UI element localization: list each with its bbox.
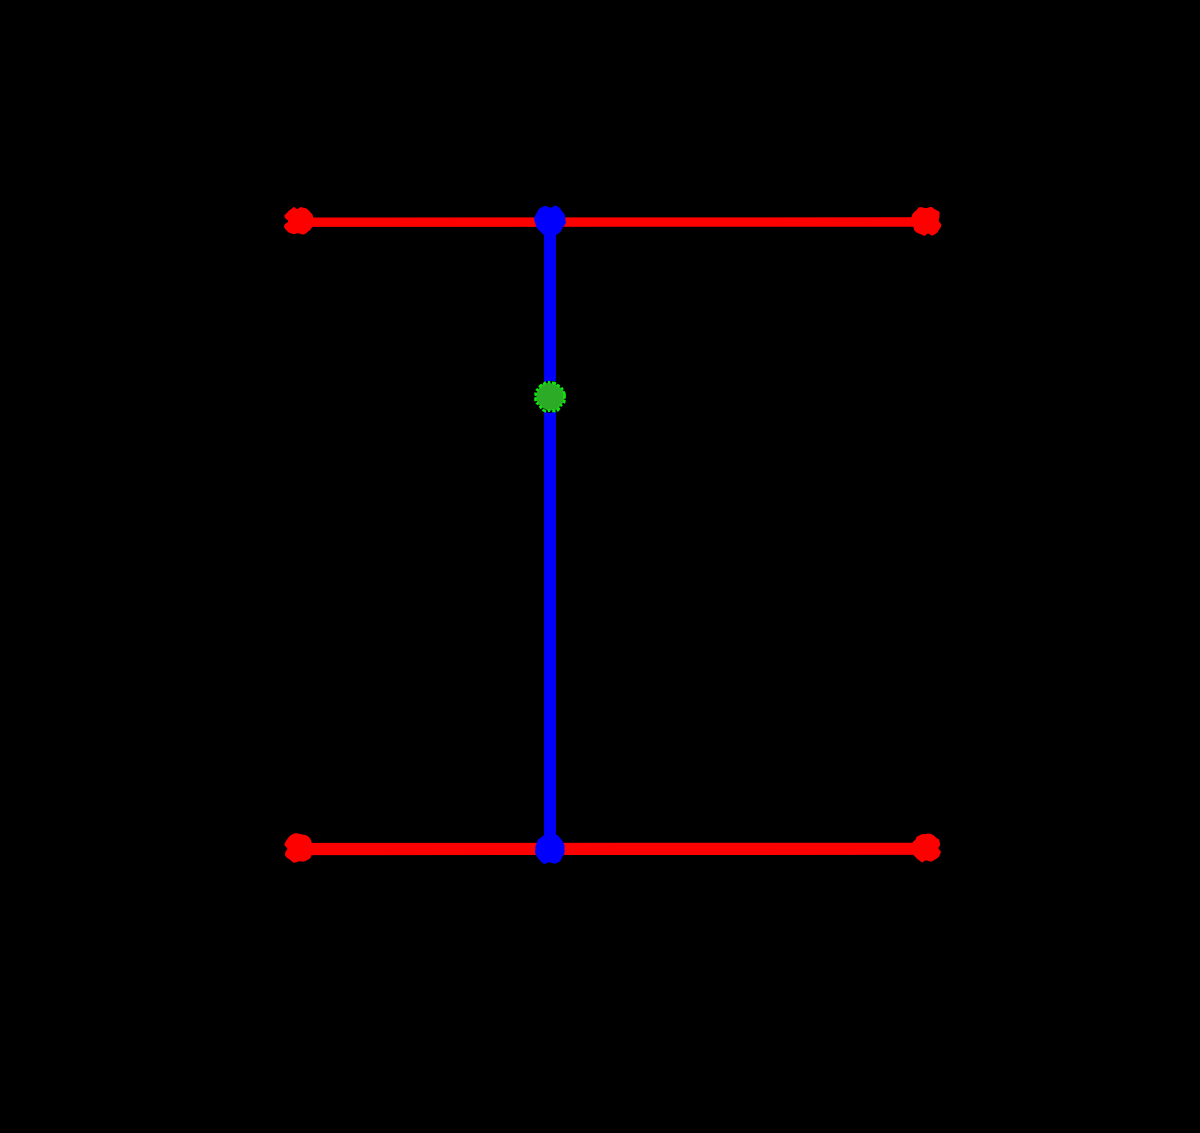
node bottom junction (blue dot)	[535, 833, 565, 864]
node middle (green dot)	[534, 381, 566, 413]
node top junction (blue dot)	[534, 205, 566, 236]
node bottom-left endpoint (red dot)	[285, 833, 314, 862]
wire top horizontal (red)	[299, 217, 927, 227]
wire vertical (blue)	[544, 221, 556, 850]
wire bottom horizontal (red)	[299, 843, 927, 855]
node bottom-right endpoint (red dot)	[912, 834, 941, 863]
node top-right endpoint (red dot)	[911, 207, 941, 236]
node top-left endpoint (red dot)	[284, 207, 313, 234]
